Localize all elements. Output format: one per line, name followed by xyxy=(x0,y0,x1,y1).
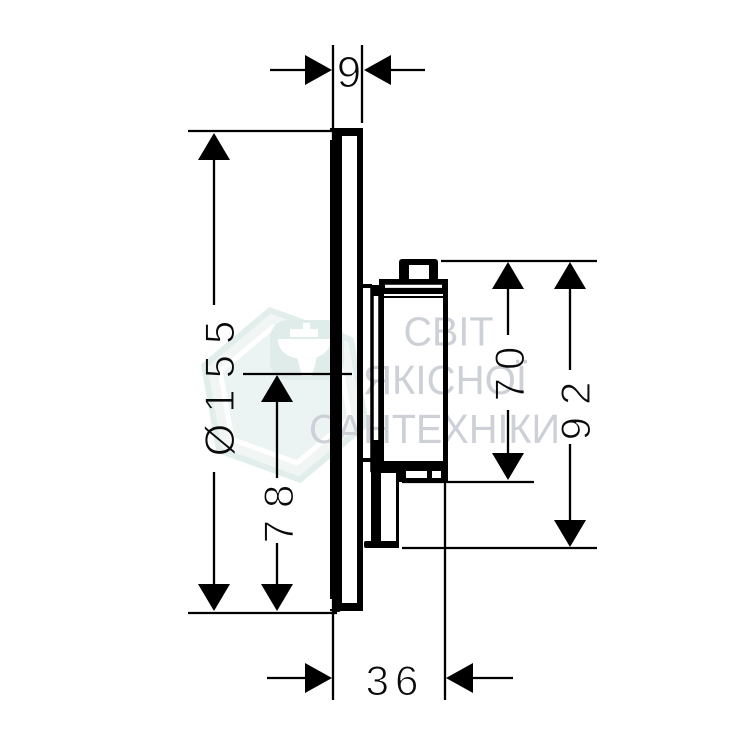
dim 9 left arrow xyxy=(305,55,332,85)
dim 9 left leader xyxy=(270,69,308,71)
wall plate right edge xyxy=(357,129,363,611)
svg-text:78: 78 xyxy=(255,473,302,544)
pipe left thick edge xyxy=(371,470,381,547)
dim 70 up arrow xyxy=(492,262,524,289)
plate top-left notch xyxy=(329,130,334,140)
dim 70 top extension line xyxy=(441,260,597,262)
flange bottom nub xyxy=(371,440,381,472)
dim 36 right extension line xyxy=(444,470,446,700)
dim 92 up arrow xyxy=(554,262,586,289)
dim 70 line lower xyxy=(507,410,509,478)
dim 92 line upper xyxy=(569,264,571,370)
pipe below cartridge xyxy=(374,472,398,547)
cartridge box top double band xyxy=(379,279,448,294)
cartridge box bottom thick band xyxy=(379,461,448,471)
dim 36 right leader xyxy=(470,677,513,679)
dim 78 down arrow xyxy=(261,584,293,611)
wall plate side profile xyxy=(333,131,361,609)
flange behind cartridge xyxy=(372,289,380,471)
plate bottom-left notch xyxy=(329,599,334,609)
top stub xyxy=(399,259,438,284)
cartridge box xyxy=(382,282,446,468)
step connector bottom xyxy=(362,458,372,462)
dim 92 down arrow xyxy=(554,520,586,547)
dim 9 right arrow xyxy=(364,55,391,85)
watermark basin icon faucet xyxy=(290,329,318,337)
dim 36 left arrow xyxy=(305,663,332,693)
watermark basin blob xyxy=(270,320,344,380)
watermark overlay (multiply) xyxy=(204,309,560,480)
dim 155 down arrow xyxy=(198,584,230,611)
dim 155 bottom extension line xyxy=(188,612,337,614)
wall plate left thick band xyxy=(330,128,342,612)
dim 78 line upper xyxy=(276,377,278,478)
flange top nub xyxy=(371,285,381,296)
dim 155 line upper xyxy=(213,135,215,305)
watermark hexagon outer xyxy=(204,310,366,479)
dim 9 extension line right xyxy=(361,45,363,123)
dim 92 line lower xyxy=(569,444,571,545)
svg-text:9: 9 xyxy=(337,48,361,97)
dim 155 top extension line xyxy=(188,130,334,132)
svg-text:СВІТ: СВІТ xyxy=(404,309,494,355)
svg-text:ЯКІСНОЇ: ЯКІСНОЇ xyxy=(363,357,528,403)
watermark basin icon pedestal xyxy=(297,357,317,376)
dim 70 bottom extension line xyxy=(402,481,534,483)
svg-text:36: 36 xyxy=(366,657,425,704)
dim 9 right leader xyxy=(390,69,425,71)
watermark hexagon inner xyxy=(220,327,350,463)
svg-text:САНТЕХНІКИ: САНТЕХНІКИ xyxy=(309,406,560,452)
cartridge box top seam line xyxy=(382,296,445,298)
dim 155 line lower xyxy=(213,472,215,609)
bottom stub xyxy=(399,470,448,482)
dim 78 top extension line xyxy=(243,373,352,375)
dim 36 right arrow xyxy=(446,663,473,693)
dim 92 bottom extension line xyxy=(402,547,597,549)
step connector top xyxy=(362,284,372,288)
dim 78 up arrow xyxy=(261,375,293,402)
dim 78 line lower xyxy=(276,543,278,609)
pipe bottom thick band xyxy=(364,541,399,548)
dim 36 left leader xyxy=(267,677,308,679)
dim 155 up arrow xyxy=(198,133,230,160)
dim 9 extension line left xyxy=(332,45,334,129)
dim 70 line upper xyxy=(507,264,509,335)
dim 70 down arrow xyxy=(492,453,524,480)
wall plate bottom band xyxy=(331,603,362,611)
watermark basin icon bowl xyxy=(278,339,331,359)
wall plate top band xyxy=(331,128,362,136)
dim 36 left extension line xyxy=(332,613,334,700)
